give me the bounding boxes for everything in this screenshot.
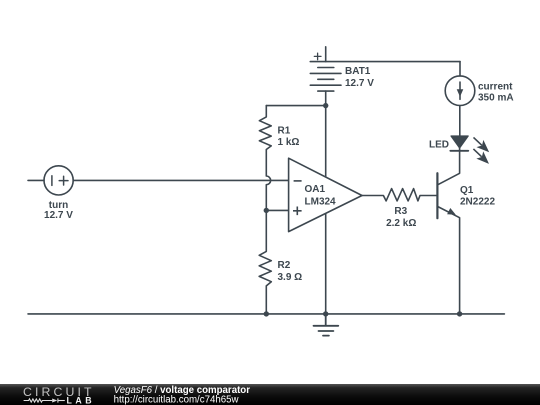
wire top rail battery to current source [310, 61, 460, 63]
svg-text:R1: R1 [278, 125, 291, 136]
LED triangle [451, 136, 468, 148]
ground symbol [314, 314, 339, 336]
svg-text:LAB: LAB [67, 395, 96, 405]
battery top lead [325, 47, 327, 62]
logo diode triangle [52, 399, 57, 403]
svg-text:12.7 V: 12.7 V [345, 78, 374, 89]
wire plus input [266, 209, 288, 211]
op-amp OA1 triangle [289, 158, 362, 231]
wire source to op-amp minus input [73, 179, 288, 181]
svg-text:LM324: LM324 [305, 197, 337, 208]
battery plus sign [314, 53, 321, 60]
current source arrow shaft [459, 82, 461, 99]
wire current source to LED [459, 106, 461, 137]
svg-text:350 mA: 350 mA [478, 93, 514, 104]
ground rail [28, 313, 504, 315]
junction dot emitter/rail [457, 311, 462, 316]
voltage source plus sign [59, 176, 68, 185]
transistor Q1 base bar [436, 173, 438, 218]
resistor R2 with leads [259, 210, 271, 314]
current source arrowhead [457, 89, 464, 97]
wire left stub of source [28, 179, 44, 181]
resistor R3 with leads from op-amp output to base [362, 189, 437, 201]
wire LED to transistor collector [437, 148, 459, 185]
LED light arrow 2 [471, 146, 491, 166]
junction dot battery/R1 [323, 103, 328, 108]
LED light arrow 1 [471, 134, 491, 154]
svg-text:12.7 V: 12.7 V [44, 210, 73, 221]
junction dot R2/rail [264, 311, 269, 316]
svg-text:http://circuitlab.com/c74h65w: http://circuitlab.com/c74h65w [114, 395, 240, 405]
svg-text:3.9 Ω: 3.9 Ω [278, 272, 303, 283]
transistor Q1 emitter arrowhead [447, 208, 456, 215]
battery bottom lead / vertical wire to ground rail (passes behind op-amp) [325, 91, 327, 314]
svg-text:2N2222: 2N2222 [460, 197, 495, 208]
LED cathode bar [450, 150, 468, 152]
junction dot divider/plus input [264, 208, 269, 213]
current source I1 circle [445, 76, 475, 106]
battery BAT1 plates [310, 68, 341, 92]
svg-text:2.2 kΩ: 2.2 kΩ [386, 218, 416, 229]
junction dot ground/rail [323, 311, 328, 316]
resistor R1 with leads and hop over horizontal wire [259, 106, 271, 211]
wire battery junction to R1 top [266, 105, 325, 107]
svg-text:R2: R2 [278, 260, 291, 271]
svg-text:LED: LED [429, 139, 449, 150]
svg-text:1 kΩ: 1 kΩ [278, 137, 300, 148]
op-amp minus symbol [294, 180, 302, 182]
svg-text:R3: R3 [394, 206, 407, 217]
logo resistor-diode squiggle [24, 398, 65, 402]
svg-text:BAT1: BAT1 [345, 66, 371, 77]
svg-text:current: current [478, 81, 513, 92]
transistor Q1 emitter [437, 206, 459, 314]
op-amp plus symbol [293, 207, 302, 216]
wire current source top lead [459, 62, 461, 76]
svg-text:OA1: OA1 [305, 184, 326, 195]
svg-text:Q1: Q1 [460, 185, 474, 196]
voltage source V1 circle [44, 166, 73, 195]
voltage source minus bar [51, 176, 53, 186]
